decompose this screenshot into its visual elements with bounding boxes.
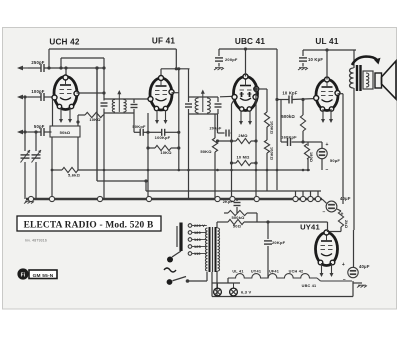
svg-text:2KpF: 2KpF [223,200,234,204]
wire [77,122,79,126]
wire rail B+ [353,88,355,230]
wire [77,137,79,170]
svg-text:UCH 42: UCH 42 [49,38,80,47]
heater chain [228,274,317,278]
svg-text:200pF: 200pF [225,57,238,62]
svg-text:180Ω: 180Ω [309,152,313,162]
wire [322,199,326,203]
wire [302,191,304,197]
junction J0 [28,196,33,201]
wire [134,98,151,100]
wire line3 [146,190,321,192]
capacitor 160KpF [287,138,289,146]
wire [353,282,362,284]
svg-text:180: 180 [194,231,201,235]
svg-text:10 KpF: 10 KpF [282,91,297,96]
wire [327,222,329,232]
capacitor 10KpF decoupling [299,57,307,59]
wire [326,50,328,80]
svg-text:140: 140 [194,238,201,242]
resistor 10K [155,145,171,150]
junction J3 [146,196,151,201]
wire [45,67,105,69]
wire [211,272,213,297]
title box [17,216,161,231]
svg-text:ELECTA RADIO - Mod. 520 B: ELECTA RADIO - Mod. 520 B [24,221,154,231]
mains tap 140 [188,238,192,242]
capacitor 100pF [40,93,42,101]
mains cord [164,268,176,272]
resistor 100K a [264,112,269,127]
resistor 500K grid [300,115,305,131]
electrolytic 40uF b [348,267,358,277]
wire rail [178,69,180,170]
wire rail [188,69,190,97]
svg-text:50Ω: 50Ω [233,224,242,229]
wire [218,140,237,142]
IF transformer T2 [189,96,219,98]
wire rail [231,104,233,199]
wire [293,99,317,100]
svg-text:10 MΩ: 10 MΩ [236,155,250,160]
wire [172,92,179,94]
junction J3b [215,196,220,201]
switch S1 [167,279,173,285]
svg-text:2MΩ: 2MΩ [238,133,248,138]
wire [212,282,240,284]
wire [227,278,229,283]
junction J2 [97,196,102,201]
ground chassis [24,202,27,204]
svg-text:125: 125 [194,245,201,249]
wire [78,114,85,116]
mains tap 220 V [188,224,192,228]
wire [303,141,308,143]
IF transformer T1 [104,98,134,100]
svg-text:UBC 41: UBC 41 [302,284,317,288]
wire [224,212,228,214]
svg-text:UF 41: UF 41 [152,37,176,46]
wire [60,58,62,68]
tube U3 UBC41 [234,77,258,111]
resistor 2K [338,211,343,227]
wire [317,191,319,197]
resistor 180 cathode [304,144,309,159]
junction [187,169,190,172]
svg-text:UBC 41: UBC 41 [235,37,266,46]
svg-text:UY41: UY41 [300,223,320,232]
svg-text:−: − [322,210,325,216]
mains tap 180 [188,231,192,235]
wire [255,88,257,90]
wire [244,221,328,223]
wire [232,162,237,164]
wire [266,89,268,112]
wire [148,147,155,149]
resistor 50K vert [212,138,217,152]
wire [51,137,53,199]
capacitor osc [101,102,108,104]
heater arrow [240,111,242,124]
svg-text:10KΩ: 10KΩ [160,150,172,155]
wire [160,69,162,78]
wire [321,142,323,148]
tube U1 UCH42 [54,77,77,110]
svg-text:10 KpF: 10 KpF [308,57,323,62]
lamp L1 [217,283,219,288]
heater arrow [60,108,62,122]
wire B+ line 2 [303,49,356,51]
svg-text:UF41: UF41 [269,270,279,274]
svg-text:50KΩ: 50KΩ [200,149,212,154]
wire [134,131,140,133]
wire [45,131,52,133]
heater arrow [331,263,333,276]
resistor 10k osc [85,112,103,117]
capacitor 200pF det [225,130,227,137]
svg-text:UL 41: UL 41 [315,37,338,46]
svg-text:10KΩ: 10KΩ [89,117,101,122]
svg-text:220 V: 220 V [194,224,205,228]
lamp L2 [233,283,235,288]
wire B+ line [219,48,277,50]
wire [148,131,162,133]
tube U5 UY41 [316,233,338,266]
svg-text:Fi: Fi [21,273,26,279]
wire [256,88,267,90]
svg-text:50KpF: 50KpF [132,124,146,129]
wire rail [255,89,257,199]
svg-text:40μF: 40μF [340,196,351,201]
heater arrow [330,109,332,122]
svg-text:20KpF: 20KpF [272,240,286,245]
ground right [357,286,360,288]
capacitor 200pF decoupling [215,57,223,59]
wire [96,68,98,181]
svg-text:Inv. 48T9316: Inv. 48T9316 [25,239,47,243]
capacitor 10KpF coupling [288,96,290,104]
terminal A2 [17,95,23,100]
junction J7 [308,196,313,201]
junction [255,169,258,172]
wire [217,114,219,133]
wire [277,99,289,101]
wire rail [214,114,216,138]
junction J3c [230,196,235,201]
wire [216,222,218,228]
svg-text:110: 110 [194,252,201,256]
ground [298,68,301,70]
junction [302,169,305,172]
wire AVC line [52,169,62,171]
chassis bus [26,198,322,201]
heater arrow [69,108,71,122]
wire [188,280,208,282]
junction [103,169,106,172]
wire rail [353,230,355,267]
svg-text:5,6kΩ: 5,6kΩ [68,173,81,178]
resistor 50k (cathode box) [50,126,80,137]
svg-text:100KpF: 100KpF [155,135,171,140]
wire [145,181,147,191]
resistor 50 ohm [228,219,244,224]
wire [103,114,104,116]
power transformer [209,227,211,272]
wire [216,271,218,283]
capacitor 50KpF [139,129,141,136]
resistor 10M [236,160,251,165]
wire [52,99,54,126]
wire [96,68,98,181]
wire rail [147,113,149,199]
heater arrow [322,109,324,122]
svg-text:UL 41: UL 41 [232,270,243,274]
wire [266,127,268,140]
junction [216,169,219,172]
ground [214,68,217,70]
wire [61,57,104,59]
svg-text:100KΩ: 100KΩ [270,147,274,160]
svg-text:200pF: 200pF [210,127,222,131]
tube U2 UF41 [150,78,172,110]
resistor 500K fb [228,210,247,215]
variable capacitor CV2 [32,154,41,156]
wire rail [276,49,278,190]
svg-text:+: + [325,142,328,148]
wire [28,67,41,69]
wire [24,162,26,199]
wire [35,162,37,199]
svg-text:160KpF: 160KpF [281,135,297,140]
junction J5 [293,196,298,201]
wire [220,95,234,98]
diode eyes [241,92,243,97]
junction J6 [300,196,305,201]
heater arrow [249,111,251,124]
electrolytic 50uF [317,148,327,158]
resistor 100K b [264,140,269,153]
wire [175,49,177,69]
wire [302,100,304,116]
junction [147,169,150,172]
wire bottom [212,296,353,298]
wire [48,49,50,68]
capacitor 250pF [40,64,42,72]
mains tap 110 [188,252,192,256]
wire [28,131,41,133]
wire [77,92,105,94]
svg-text:2kΩ: 2kΩ [344,220,349,229]
wire [24,97,26,151]
antenna terminal A1 [17,66,23,71]
wire [295,191,297,197]
svg-text:500kΩ: 500kΩ [281,114,295,119]
heater arrow [321,263,323,276]
svg-text:6,3 V: 6,3 V [241,290,251,295]
wire [45,96,55,98]
wire [236,199,238,201]
resistor 5.6k [62,167,78,172]
terminal A3 [17,130,23,135]
junction [307,169,310,172]
junction [266,169,269,172]
mains plug [179,223,182,252]
plug pin [167,257,173,263]
capacitor 100KpF [161,129,163,136]
mains tap 125 [188,245,192,249]
wire [310,191,312,197]
svg-text:50kΩ: 50kΩ [60,130,71,135]
wire grid line [49,48,176,50]
svg-text:−: − [325,167,328,173]
wire [245,49,247,77]
wire [133,113,135,132]
heater arrow [156,110,158,123]
wire line2 [97,180,148,182]
output transformer [353,50,355,68]
svg-text:100KΩ: 100KΩ [270,121,274,134]
svg-text:UY41: UY41 [251,270,261,274]
wire [35,132,37,151]
svg-text:100pF: 100pF [31,89,44,94]
capacitor 2KpF [234,202,241,204]
junction J1 [49,196,54,201]
junction [178,169,181,172]
logo GM [17,268,28,279]
svg-text:+: + [342,262,345,268]
wire [172,251,181,257]
junction [276,169,279,172]
wire [231,132,232,134]
tube U4 UL41 [316,80,338,111]
wire [281,141,287,143]
wire rail [103,58,105,101]
electrolytic 40uF a [326,201,337,212]
capacitor 50pF [40,128,42,136]
wire rail [342,94,344,204]
svg-text:50pF: 50pF [34,124,45,129]
speaker [375,73,382,88]
svg-text:50μF: 50μF [330,158,340,163]
capacitor 20KpF [264,240,272,242]
svg-text:UCH 42: UCH 42 [289,270,304,274]
resistor 2M [236,138,251,143]
svg-text:250pF: 250pF [31,60,44,65]
svg-text:−: − [343,277,346,283]
svg-text:40μF: 40μF [359,264,370,269]
svg-text:GM 55-N: GM 55-N [33,273,54,279]
wire [65,68,67,78]
wire [161,68,190,70]
heater arrow [165,110,167,123]
wire [338,93,344,95]
wire [28,96,41,98]
wire [337,209,341,211]
junction J8 [315,196,320,201]
variable capacitor CV1 [21,154,30,156]
junction J4 [254,196,259,201]
junction [230,169,233,172]
